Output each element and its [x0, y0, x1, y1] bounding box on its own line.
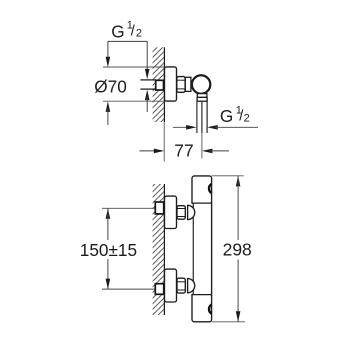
- outlet pipe (top view): [196, 101, 198, 133]
- cap separation lines: [192, 202, 212, 204]
- top handle recess blob: [209, 184, 212, 193]
- middle bar inset left edge: [191, 204, 194, 294]
- bottom supply line / 150 extension line: [102, 288, 155, 290]
- G1/2 dimension bracket: [108, 40, 147, 42]
- top square wall union (front view): [155, 202, 163, 214]
- wall face line (top view): [163, 47, 165, 122]
- svg-text:G: G: [220, 106, 233, 126]
- wall (front view) hatching: [153, 184, 165, 315]
- washer cylinder (top view): [185, 77, 191, 91]
- top supply line / 150 extension line: [102, 207, 155, 209]
- body bar (front view): [192, 176, 212, 322]
- 77 dimension: [140, 150, 161, 152]
- square wall union (top view): [156, 80, 164, 90]
- G1/2 leader arrows at outlet pipe: [173, 126, 193, 128]
- svg-text:Ø70: Ø70: [94, 76, 127, 96]
- svg-text:2: 2: [244, 112, 250, 124]
- Ø70 top extension line: [103, 66, 164, 68]
- bottom square wall union (front view): [155, 284, 163, 295]
- svg-text:2: 2: [136, 28, 142, 40]
- top escutcheon flange (front view): [165, 196, 177, 228]
- svg-text:150±15: 150±15: [80, 240, 137, 260]
- wall (top view) hatching: [153, 47, 165, 122]
- arrow down to Ø70 top line: [106, 57, 111, 67]
- svg-text:77: 77: [174, 141, 193, 161]
- top union nut (front view): [177, 206, 185, 220]
- valve ball (top view circle): [192, 75, 210, 93]
- 150±15 dimension line with arrows: [106, 208, 111, 219]
- pipe centerline extension down: [201, 133, 203, 159]
- arrow up to pipe stub bottom edge: [145, 90, 150, 101]
- 298 extension lines: [212, 175, 244, 177]
- bottom escutcheon flange (front view): [165, 269, 177, 302]
- wall face line (front view): [163, 184, 165, 315]
- supply pipe stub in wall (top view): [140, 79, 156, 81]
- 298 dimension line: [236, 176, 241, 187]
- outlet collar under ball: [197, 94, 207, 98]
- top dome cone into body: [188, 205, 195, 219]
- bottom handle recess blob: [209, 305, 212, 314]
- bottom union nut (front view): [177, 278, 185, 293]
- wall face extension line down to 77 dim: [163, 122, 165, 162]
- Ø70 bottom extension line: [103, 100, 164, 102]
- arrow down to pipe stub top edge: [145, 69, 150, 80]
- svg-text:298: 298: [223, 240, 252, 260]
- escutcheon flange (top view): [165, 67, 177, 101]
- bottom dome cone into body: [188, 279, 195, 293]
- svg-text:G: G: [111, 22, 124, 42]
- arrow up to Ø70 bottom line: [106, 101, 111, 112]
- union nut (top view): [177, 77, 185, 93]
